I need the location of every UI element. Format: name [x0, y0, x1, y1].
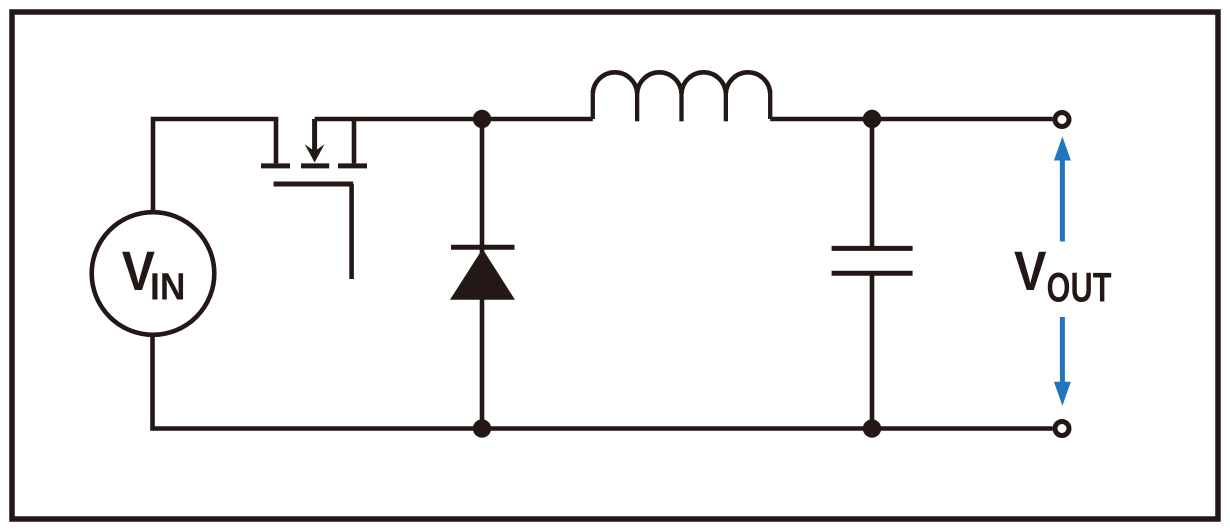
VOUT arrow upper (blue, pointing up) [1054, 137, 1071, 242]
label VOUT [1014, 239, 1112, 310]
wire: diode branch vertical [480, 119, 485, 429]
capacitor C1 [832, 248, 913, 273]
body contact bar [301, 163, 329, 168]
wire: MOSFET drain to inductor (through switch node) [315, 117, 593, 122]
wire: bottom return rail [153, 337, 1053, 429]
gate electrode [274, 182, 354, 187]
svg-text:IN: IN [150, 267, 185, 309]
bottom plate [832, 271, 913, 276]
body arrow head [305, 144, 325, 162]
coil stub 3 [724, 94, 728, 122]
wire: VIN top to MOSFET source [153, 119, 278, 212]
drain contact bar [338, 163, 367, 168]
anode triangle [450, 249, 515, 300]
terminal: VOUT positive (open circle) [1055, 113, 1069, 127]
source lead [274, 119, 279, 163]
wire: inductor to output terminal (through output node) [770, 117, 1052, 122]
wire: capacitor to ground rail [870, 276, 875, 429]
source contact bar [261, 163, 290, 168]
node: diode anode junction dot [473, 419, 491, 437]
left riser [591, 94, 595, 120]
gate lead [349, 184, 354, 279]
node: capacitor bottom junction dot [863, 419, 881, 437]
svg-text:OUT: OUT [1047, 264, 1112, 310]
coil stub 1 [635, 94, 639, 122]
node: switch node junction dot [473, 110, 491, 128]
drain lead [352, 119, 357, 163]
transistor Q1 (MOSFET switch) [261, 119, 367, 279]
coil arcs [593, 72, 770, 93]
body arrow shaft [312, 119, 317, 152]
terminal: VOUT negative (open circle) [1055, 422, 1069, 436]
top plate [832, 246, 913, 251]
coil stub 2 [679, 94, 683, 122]
voltage source VIN [92, 212, 215, 335]
inductor L1 [593, 72, 770, 121]
node: output node junction dot [863, 110, 881, 128]
svg-text:V: V [1014, 239, 1047, 302]
diode D1 freewheeling (cathode up) [450, 247, 515, 299]
VOUT arrow lower (blue, pointing down) [1054, 317, 1071, 406]
wire: output node down to capacitor [870, 119, 875, 246]
right riser [768, 94, 772, 120]
cathode bar [451, 245, 515, 250]
